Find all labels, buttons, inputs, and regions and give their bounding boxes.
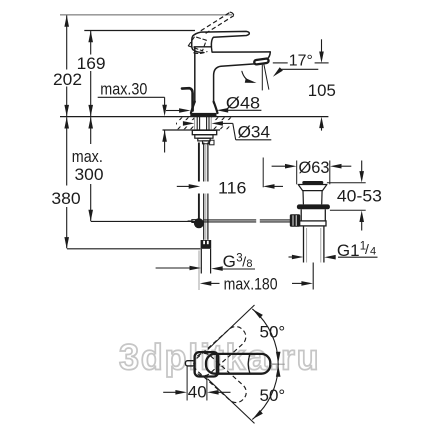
svg-text:max.: max. [72, 147, 103, 166]
svg-text:17°: 17° [289, 53, 313, 70]
svg-text:300: 300 [75, 165, 104, 184]
svg-text:169: 169 [77, 54, 106, 73]
svg-text:116: 116 [218, 179, 246, 198]
svg-text:/: / [365, 241, 369, 257]
svg-text:40-53: 40-53 [337, 187, 382, 206]
svg-text:G: G [223, 252, 236, 271]
svg-text:40: 40 [188, 382, 207, 401]
svg-text:Ø63: Ø63 [299, 158, 330, 177]
svg-text:380: 380 [51, 189, 80, 208]
svg-text:50°: 50° [260, 322, 286, 341]
svg-text:8: 8 [246, 258, 252, 270]
svg-text:105: 105 [308, 82, 336, 100]
svg-text:max.30: max.30 [100, 79, 147, 98]
svg-text:4: 4 [370, 245, 376, 257]
svg-text:50°: 50° [260, 386, 286, 405]
svg-text:Ø34: Ø34 [238, 124, 270, 142]
svg-text:max.180: max.180 [224, 275, 278, 294]
